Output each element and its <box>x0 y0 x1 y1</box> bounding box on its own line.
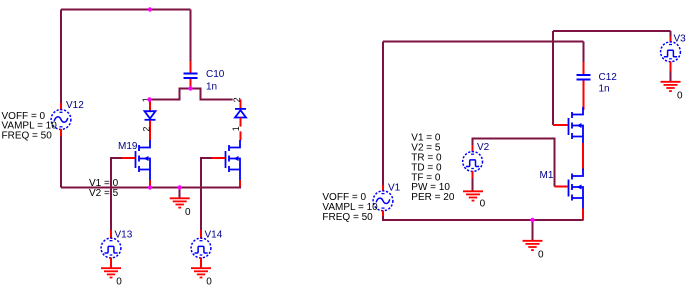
svg-text:M1: M1 <box>540 170 554 181</box>
wire C10 to left diode <box>150 89 191 100</box>
ground 0 under V3 <box>661 82 684 102</box>
voltage source V12 <box>51 100 84 136</box>
wire second rail down to C12 <box>583 42 585 63</box>
wire top rail down to upper gate <box>552 31 554 125</box>
value labels V2 <box>411 133 455 204</box>
wire C10 to right diode <box>191 89 241 100</box>
svg-text:FREQ = 50: FREQ = 50 <box>322 212 373 223</box>
svg-text:C12: C12 <box>599 72 618 83</box>
ground 0 mid left circuit <box>170 188 191 219</box>
transistor upper right <box>553 107 583 170</box>
ground 0 under V14 <box>191 268 212 287</box>
svg-text:2: 2 <box>232 97 242 102</box>
svg-text:0: 0 <box>480 199 486 210</box>
svg-text:FREQ = 50: FREQ = 50 <box>2 130 53 141</box>
svg-text:V2: V2 <box>477 142 490 153</box>
wire V3 to ground <box>670 72 672 82</box>
junction dot under C10 <box>188 86 192 90</box>
diode D left (cathode down) <box>145 100 156 141</box>
svg-text:0: 0 <box>677 90 683 101</box>
transistor M19 <box>118 140 150 188</box>
wire top left circuit <box>61 9 191 11</box>
svg-text:1n: 1n <box>206 82 217 93</box>
svg-text:PER = 20: PER = 20 <box>411 192 455 203</box>
svg-text:V14: V14 <box>205 230 223 241</box>
ground 0 bottom right circuit <box>523 241 545 261</box>
wire ground stub right <box>532 220 534 241</box>
wire V2 to M1 gate <box>473 139 555 187</box>
wire bottom rail left circuit <box>61 187 241 189</box>
wire M19 gate to V13 <box>111 158 122 230</box>
svg-text:V2 = 5: V2 = 5 <box>89 188 119 199</box>
node labels V1 V2 left <box>89 178 119 199</box>
transistor right (unlabeled) <box>212 140 240 188</box>
transistor M1 <box>540 169 584 221</box>
diode D right (cathode up) <box>235 100 246 141</box>
svg-text:0: 0 <box>538 250 544 261</box>
svg-text:1n: 1n <box>599 83 610 94</box>
wire V12 to bottom <box>60 136 62 188</box>
svg-text:0: 0 <box>185 207 191 218</box>
junction dot M19 source <box>148 185 152 189</box>
wire bottom rail right circuit <box>383 216 584 220</box>
junction dot left diode anode <box>147 97 151 101</box>
ground 0 under V13 <box>101 268 122 287</box>
pin 1 label right diode <box>231 126 242 131</box>
wire right vertical to C10 <box>190 10 192 62</box>
wire top rail right circuit <box>553 30 671 32</box>
junction dot ground tap left <box>178 185 182 189</box>
wire left vertical to V12 <box>60 10 62 104</box>
svg-text:V3: V3 <box>674 33 687 44</box>
svg-text:C10: C10 <box>206 69 225 80</box>
junction dot ground tap right <box>530 218 534 222</box>
junction dot top wire <box>148 7 152 11</box>
svg-text:V1: V1 <box>388 183 401 194</box>
voltage source V14 <box>191 230 223 269</box>
capacitor C12 <box>577 62 618 110</box>
svg-text:2: 2 <box>142 127 152 132</box>
voltage source V1 <box>373 183 401 217</box>
wire V2 to ground <box>472 178 474 191</box>
voltage source V13 <box>101 230 133 269</box>
svg-text:0: 0 <box>206 276 212 287</box>
ground 0 under V2 <box>463 191 486 209</box>
wire second rail down to V1 <box>382 42 384 186</box>
value labels V12 <box>2 111 58 142</box>
wire second rail right circuit <box>383 41 584 43</box>
wire top rail to V3 <box>670 31 672 37</box>
voltage source V3 <box>661 33 687 71</box>
pin 2 label right diode <box>232 97 242 103</box>
svg-text:1: 1 <box>231 126 241 131</box>
wire right mosfet gate to V14 <box>201 158 212 230</box>
capacitor C10 <box>184 61 225 93</box>
voltage source V2 <box>463 142 490 178</box>
svg-text:V12: V12 <box>66 100 84 111</box>
value labels V1 <box>322 192 378 223</box>
svg-text:V13: V13 <box>115 230 133 241</box>
svg-text:M19: M19 <box>118 141 138 152</box>
svg-text:0: 0 <box>116 276 122 287</box>
